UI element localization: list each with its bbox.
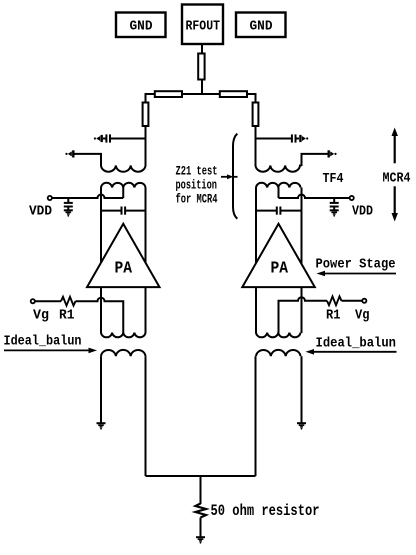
svg-text:VDD: VDD — [29, 204, 52, 220]
port P4 (right upper port symbol) — [300, 135, 308, 142]
ground (under left balun) — [97, 423, 106, 429]
port box GND left — [116, 13, 166, 38]
svg-text:R1: R1 — [59, 308, 75, 324]
svg-text:GND: GND — [250, 19, 273, 35]
transformer T3 primary (right, 3 loops down) — [256, 166, 302, 172]
port P3 (left upper port symbol) — [94, 135, 102, 142]
wire right to bottom bus — [255, 356, 257, 476]
svg-text:MCR4: MCR4 — [383, 171, 411, 187]
svg-text:GND: GND — [130, 19, 153, 35]
wire to ground — [200, 518, 202, 538]
wire R1 right to tap with hop — [279, 297, 328, 333]
wire left main drop — [145, 126, 147, 166]
ground (under right balun) — [297, 423, 306, 429]
svg-text:RFOUT: RFOUT — [186, 18, 221, 34]
balun T2 primary (left, center-tapped, 4 loops down) — [101, 333, 146, 338]
transformer T1 primary (left, 3 loops down) — [101, 166, 146, 172]
balun T2 secondary (left, 3 loops up) — [101, 350, 146, 356]
wire T2 secondary left end to ground — [100, 356, 102, 423]
wire bottom bus — [146, 475, 256, 477]
arrow Z21 to bracket — [221, 174, 238, 179]
resistor R1 right (zigzag) — [327, 296, 342, 305]
svg-text:PA: PA — [115, 260, 133, 279]
op-amp PA right (triangle) — [242, 224, 314, 287]
wire port P6 to T3 primary — [302, 154, 328, 166]
wire right leg outer — [301, 188, 303, 334]
bracket Z21 test position — [233, 134, 237, 219]
svg-text:Power Stage: Power Stage — [316, 257, 396, 273]
ground (bottom load) — [196, 537, 205, 543]
svg-text:TF4: TF4 — [323, 171, 344, 187]
svg-text:Ideal_balun: Ideal_balun — [4, 334, 82, 350]
balun T4 secondary (right, 3 loops up) — [256, 350, 301, 356]
ground (left VDD bypass) — [64, 210, 73, 216]
wire R1 to tap with hop — [76, 298, 124, 333]
resistor 50 ohm (zigzag) — [196, 504, 207, 518]
capacitor C1 (left test cap) — [103, 134, 146, 142]
wire VDD line left with hop over left leg — [52, 195, 123, 199]
capacitor C2 (left VDD bypass) — [64, 198, 73, 210]
wire Vg right — [342, 300, 363, 302]
port box GND right — [236, 13, 286, 38]
capacitor C4 (right test cap) — [256, 134, 300, 142]
wire T4 secondary right end to ground — [301, 356, 303, 423]
ground (right VDD bypass) — [330, 210, 339, 216]
wire right main drop — [255, 126, 257, 166]
balun T4 primary (right, center-tapped, 4 loops down) — [256, 333, 301, 338]
arrow MCR4 up — [392, 128, 398, 164]
capacitor C3 (left interstage) — [101, 207, 146, 215]
arrow Power Stage to PA — [317, 271, 397, 277]
resistor R1 left (zigzag) — [61, 297, 76, 306]
microstrip TL5 (right vertical) — [253, 103, 259, 127]
port P6 (right lower port symbol) — [329, 150, 337, 157]
port P5 (left lower port symbol) — [65, 150, 73, 157]
microstrip TL4 (left vertical) — [143, 103, 149, 127]
wire RFOUT to TL1 — [201, 44, 203, 54]
transformer T3 secondary (right, center-tapped, 4 loops up) — [256, 183, 301, 188]
svg-text:for MCR4: for MCR4 — [176, 192, 218, 207]
svg-text:Z21 test: Z21 test — [176, 164, 218, 179]
capacitor C6 (right interstage) — [256, 207, 302, 215]
svg-text:position: position — [176, 178, 218, 193]
op-amp PA left (triangle) — [87, 224, 160, 287]
transformer T1 secondary (left, center-tapped, 4 loops up) — [101, 183, 146, 188]
wire right leg inner — [255, 188, 257, 334]
wire VDD line right with hop over right leg — [279, 195, 350, 199]
svg-text:50 ohm resistor: 50 ohm resistor — [211, 502, 320, 520]
wire Vg left — [35, 300, 61, 302]
arrow to left balun — [4, 348, 97, 354]
node VDD right (open circle) — [350, 196, 354, 200]
wire left leg outer — [100, 188, 102, 334]
microstrip TL1 (vertical under RFOUT) — [198, 54, 204, 80]
wire TL1 to bus — [201, 80, 203, 96]
svg-text:PA: PA — [271, 260, 289, 279]
arrow MCR4 down — [392, 186, 398, 221]
node Vg left (open circle) — [31, 299, 35, 303]
capacitor C5 (right VDD bypass) — [330, 198, 339, 210]
wire center tap T3 — [278, 188, 280, 199]
svg-text:R1: R1 — [326, 308, 341, 324]
svg-text:Vg: Vg — [33, 308, 49, 324]
wire port P5 to T1 primary — [75, 154, 102, 166]
svg-text:Ideal_balun: Ideal_balun — [316, 336, 397, 352]
node VDD left (open circle) — [48, 196, 52, 200]
wire left to bottom bus — [145, 356, 147, 476]
svg-text:Vg: Vg — [355, 308, 370, 324]
wire center tap T1 — [122, 188, 124, 199]
port box RFOUT — [182, 5, 223, 45]
svg-text:VDD: VDD — [352, 204, 373, 220]
node Vg right (open circle) — [362, 299, 366, 303]
wire top bus — [146, 94, 256, 103]
arrow to right balun — [306, 349, 397, 355]
wire left leg inner — [145, 188, 147, 334]
wire bus to load — [200, 476, 202, 504]
microstrip TL3 (right horizontal) — [220, 91, 247, 97]
microstrip TL2 (left horizontal) — [155, 91, 182, 97]
